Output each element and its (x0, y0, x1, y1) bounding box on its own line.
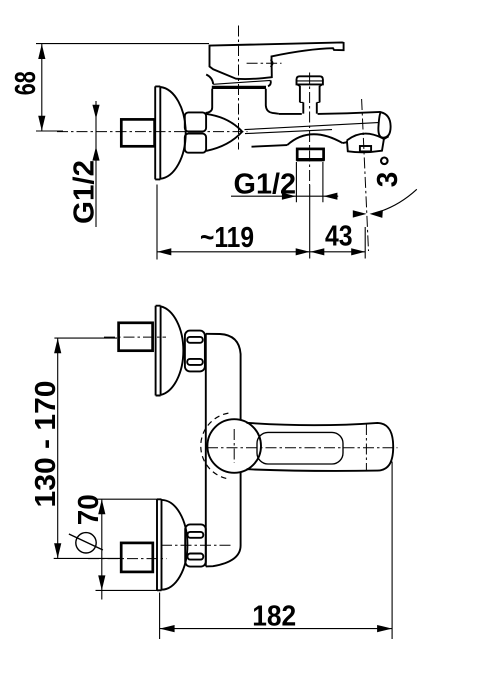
top connector centerline (104, 336, 166, 338)
bottom connector centerline (88, 558, 167, 560)
dimension 130-170 arrow top (54, 338, 61, 353)
dashed arc around cartridge (201, 413, 229, 479)
collar right curve (268, 80, 271, 86)
dimension ~119 arrow right (296, 248, 310, 255)
bottom wall connector (plan) (121, 543, 153, 572)
spout bottom edge left (252, 145, 288, 147)
dimension 182 arrow left (160, 625, 175, 632)
svg-text:G1/2: G1/2 (234, 169, 297, 201)
dimension G1/2 outlet line (231, 195, 338, 197)
wall flange dome (side view) (160, 87, 185, 179)
diverter dome bump (287, 134, 342, 145)
handle lever slot (257, 432, 343, 464)
dimension 130-170 extension top (54, 337, 117, 339)
svg-text:68: 68 (10, 71, 42, 95)
hex nut (side view), upper facet (185, 112, 206, 131)
extension line left (flange face) (156, 185, 158, 260)
diameter symbol slash (69, 534, 103, 550)
dimension dia70 extension bottom (96, 589, 158, 591)
diverter knob cap inner line (297, 80, 322, 82)
dimension 130-170 arrow bottom (54, 543, 61, 558)
extension line right (aerator axis) (364, 227, 366, 259)
dimension 182 line (160, 628, 393, 630)
bottom nut centerline (161, 544, 232, 546)
svg-text:182: 182 (252, 601, 296, 633)
dimension 68 arrow bottom (38, 116, 45, 131)
angle left arrowhead (353, 210, 367, 217)
cartridge circle (207, 419, 261, 473)
spout interior line 2 (245, 130, 332, 134)
handle pivot pin arc (270, 60, 273, 67)
spout interior line 1 (245, 123, 379, 130)
diverter knob stem step (300, 101, 320, 103)
body right side (266, 89, 279, 114)
label G1/2 arrow down (92, 105, 99, 119)
dimension 182 arrow right (377, 625, 392, 632)
svg-text:~119: ~119 (200, 222, 254, 254)
bottom flange rim (157, 499, 162, 590)
diverter knob taper (297, 84, 322, 86)
body bar left edge (205, 334, 207, 567)
angle degree ring (381, 158, 388, 165)
extension line middle (outlet axis) (309, 185, 311, 259)
dimension 68 extension top (36, 43, 209, 45)
collar left curve (206, 75, 213, 85)
svg-text:70: 70 (73, 494, 105, 525)
bottom hex nut facet bands (188, 532, 204, 538)
svg-text:G1/2: G1/2 (69, 160, 101, 224)
top hex nut (185, 331, 205, 372)
hex nut (side view), lower facet (185, 134, 206, 153)
dimension dia70 arrow bottom (98, 575, 105, 590)
dimension dia70 extension top (96, 498, 158, 500)
spout tip link (384, 136, 389, 139)
wall flange rim (side view) (155, 86, 160, 179)
collar top edge (213, 80, 270, 84)
wire: aerator axis plan view (365, 424, 367, 470)
angle 3 deg arc (373, 189, 417, 213)
dimension G1/2 extension ticks (296, 162, 323, 202)
handle pivot centerline (247, 62, 282, 64)
cone of valve body (206, 114, 242, 151)
body bar right lower edge (206, 472, 241, 566)
svg-text:130 - 170: 130 - 170 (30, 381, 62, 508)
handle lever (plan view) (247, 423, 394, 471)
svg-text:3: 3 (372, 172, 404, 188)
dimension G1/2 arrow left (282, 193, 296, 200)
handle lever (side view) (210, 42, 344, 79)
wire: horizontal centerline of wall connection (57, 131, 248, 133)
diverter knob cap (297, 76, 323, 84)
aerator body (347, 139, 384, 152)
dimension 43 arrow left (310, 248, 324, 255)
top wall connector (plan) (119, 323, 153, 351)
dimension text 130 - 170 (30, 381, 62, 508)
spout top edge (279, 112, 381, 114)
label G1/2 leader line (left) (95, 101, 97, 227)
bottom flange dome (162, 500, 188, 590)
cartridge collar (212, 86, 266, 89)
top flange dome (161, 306, 184, 395)
node: aerator axis tilted 3 deg (362, 99, 369, 251)
dimension 130-170 extension bottom (54, 557, 122, 559)
angle text 3 (372, 172, 404, 188)
G1/2 wall connector (side view) (121, 119, 154, 146)
dimension dia70 arrow top (98, 499, 105, 514)
top hex nut facet bands (187, 337, 203, 343)
dimension text 68 (10, 71, 42, 95)
dimension 68 extension bottom (36, 130, 63, 132)
dimension G1/2 arrow right (323, 193, 337, 200)
dimension 68 arrow top (38, 44, 45, 59)
svg-text:43: 43 (325, 221, 353, 253)
top flange rim (156, 306, 161, 396)
dimension dia70 line (101, 500, 103, 600)
spout tip face (378, 112, 390, 138)
node: shower outlet axis (309, 73, 311, 186)
dimension ~119 / 43 shared line (157, 251, 365, 253)
label text G1/2 left (69, 160, 101, 224)
angle arc arrowhead (370, 210, 383, 218)
diverter knob lower stem (303, 102, 317, 113)
dimension 68 line (41, 44, 43, 131)
wire: horizontal centerline plan view (207, 447, 398, 449)
dimension text 70 (73, 494, 105, 525)
shower outlet thread collar G1/2 (297, 149, 323, 160)
dimension 43 arrow right (351, 248, 365, 255)
bottom edge link (343, 141, 347, 144)
wire: vertical centerline of mixer body (238, 26, 240, 150)
dimension 130-170 line (57, 338, 59, 558)
body left side (206, 89, 213, 113)
diverter knob stem (300, 86, 320, 103)
bottom hex nut (185, 524, 206, 566)
body bar top and right edge (206, 334, 241, 420)
label G1/2 arrow up (92, 147, 99, 161)
dimension 182 extension left (159, 593, 161, 640)
aerator notch (360, 146, 371, 151)
aerator dome bump (347, 134, 384, 141)
dimension 182 extension right (391, 462, 393, 640)
cartridge center tick (233, 429, 235, 463)
diameter symbol circle (76, 533, 96, 553)
dimension ~119 arrow left (157, 248, 171, 255)
